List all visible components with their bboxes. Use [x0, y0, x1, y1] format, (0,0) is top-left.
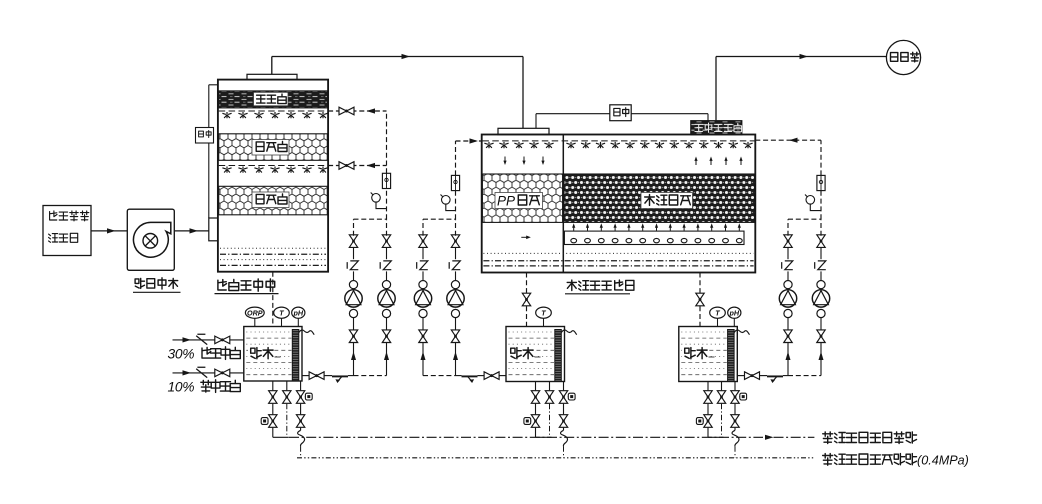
riser 2 to bio left spray: [455, 191, 457, 220]
svg-text:pH: pH: [293, 308, 304, 317]
tower inlet stub: [209, 218, 218, 241]
DP gauge box top: [610, 105, 631, 121]
dosing line NaClO: [173, 372, 244, 374]
corner to drain header: [536, 436, 552, 438]
gas pipe tower to bio unit: [271, 57, 273, 75]
strainer S1: [332, 375, 348, 377]
drain valve with funnel: [531, 415, 539, 428]
aeration arrows: [573, 226, 575, 231]
pump P4: [451, 309, 459, 317]
riser 1 to scrubber sprays: [386, 188, 388, 219]
pump column line 6: [820, 342, 822, 375]
scrubber tower shell: [218, 80, 328, 272]
svg-text:T: T: [279, 308, 284, 317]
pump column line 2: [386, 342, 388, 375]
pump column line 5: [787, 342, 789, 375]
valve below pump P4: [451, 330, 459, 343]
motorised fill valve: [296, 391, 304, 404]
valve: [545, 391, 553, 404]
valve: [296, 415, 304, 428]
valve on bio drain A: [522, 293, 530, 306]
drain valve with funnel: [704, 415, 712, 428]
underflow arrow left section: [521, 236, 527, 238]
strainer S2: [462, 375, 478, 377]
scrubber drain pipe to tank1: [272, 272, 274, 327]
pump P2: [382, 309, 390, 317]
demister band: [219, 91, 328, 108]
suction header pumps 3-4: [423, 375, 456, 377]
aeration pipe: [564, 231, 744, 244]
bio inlet cap: [498, 128, 549, 134]
check valve above pump P5: [782, 261, 793, 270]
tank T3: [679, 327, 738, 382]
valve: [559, 415, 567, 428]
water header label: [823, 454, 917, 466]
bio right up arrows: [695, 159, 697, 165]
discharge header pumps 5-6: [788, 218, 821, 220]
pump column line 1: [353, 342, 355, 375]
drain valve with funnel: [269, 415, 277, 428]
source box: low-concentration odour gas: [43, 206, 91, 256]
tank drain stub A: [272, 381, 274, 390]
dosing line NaOH: [173, 339, 244, 341]
waste drain header: [289, 436, 763, 438]
discharge valve pump P6: [817, 235, 825, 248]
corner to drain header: [273, 436, 289, 438]
discharge valve pump P1: [349, 235, 357, 248]
tank drain stub B: [549, 382, 551, 391]
svg-text:(0.4MPa): (0.4MPa): [917, 454, 969, 468]
suction header pumps 1-2: [354, 375, 387, 377]
pump P5: [784, 309, 792, 317]
svg-text:30%: 30%: [168, 347, 195, 362]
make-up water header: [297, 457, 814, 459]
motorised fill valve: [731, 391, 739, 404]
bio left down arrows: [504, 157, 506, 163]
riser 3 to bio right spray: [820, 191, 822, 220]
tank3 suction pipe: [737, 375, 744, 377]
bio unit divider: [562, 135, 564, 273]
tank fill stub C: [734, 382, 736, 391]
tower sump liquid lines: [220, 247, 326, 249]
check valve above pump P1: [347, 261, 358, 270]
pump P1: [349, 309, 357, 317]
pressure gauge G1: [372, 194, 381, 203]
PP packing band: [482, 174, 562, 222]
discharge header pumps 3-4: [423, 218, 456, 220]
spray branch upper: [328, 110, 386, 112]
flow meter F1: [382, 173, 390, 188]
motorised fill valve: [559, 391, 567, 404]
tank fill stub C: [300, 381, 302, 390]
duct fan to tower: [174, 230, 209, 232]
valve below pump P3: [419, 330, 427, 343]
fan volute symbol: [133, 222, 170, 257]
bio unit shell: [482, 135, 756, 273]
valve: [269, 391, 277, 404]
valve below pump P1: [349, 330, 357, 343]
bio media band: [564, 174, 755, 222]
exhaust stack circle: [886, 40, 920, 74]
discharge valve pump P5: [784, 235, 792, 248]
tank drain stub B: [286, 381, 288, 390]
DP gauge box left: [196, 128, 214, 144]
svg-text:pH: pH: [729, 308, 740, 317]
DP tap lines top: [535, 114, 537, 129]
bio drain pipe to tank3: [699, 273, 701, 293]
pipe crossover jump: [561, 430, 568, 446]
suction header pumps 5-6: [788, 375, 821, 377]
valve below pump P5: [784, 330, 792, 343]
discharge valve pump P2: [382, 235, 390, 248]
valve on bio drain B: [696, 293, 704, 306]
check valve above pump P3: [417, 261, 428, 270]
packing layer 2: [219, 186, 328, 215]
tower label: [218, 279, 275, 291]
strainer S3: [767, 375, 783, 377]
tank drain stub A: [707, 382, 709, 391]
discharge valve pump P3: [419, 235, 427, 248]
tank drain stub B: [721, 382, 723, 391]
check valve above pump P6: [815, 261, 826, 270]
spray header 2: [219, 165, 328, 167]
pipe crossover jump: [732, 430, 739, 446]
svg-text:10%: 10%: [168, 380, 195, 395]
flow meter F3: [817, 175, 825, 190]
bio sump liquid lines: [483, 252, 753, 254]
spray branch lower: [328, 165, 386, 167]
flow meter F2: [451, 175, 459, 190]
tank drain stub A: [535, 382, 537, 391]
pump P6: [817, 309, 825, 317]
corner to drain header: [708, 436, 724, 438]
drain header label: [823, 432, 917, 444]
valve: [531, 391, 539, 404]
bio drain pipe to tank2: [526, 273, 528, 293]
spray header 1: [219, 110, 328, 112]
DP tap line left: [209, 84, 218, 86]
tank2 suction pipe: [499, 375, 506, 377]
svg-text:PP: PP: [497, 193, 515, 208]
valve: [731, 415, 739, 428]
svg-text:T: T: [541, 308, 546, 317]
tank T2: [506, 327, 565, 382]
pipe crossover jump: [298, 430, 305, 446]
tank T1 (caustic): [244, 327, 302, 382]
pressure gauge G2: [442, 196, 451, 205]
duct source to fan: [91, 230, 127, 232]
valve: [704, 391, 712, 404]
packing layer 1: [219, 134, 328, 161]
valve below pump P2: [382, 330, 390, 343]
fan label: [135, 278, 178, 289]
pressure gauge G3: [806, 196, 815, 205]
discharge valve pump P4: [451, 235, 459, 248]
bio unit label: [567, 280, 634, 290]
pump column line 3: [422, 342, 424, 375]
outlet demister box: [691, 121, 742, 135]
discharge header pumps 1-2: [354, 218, 387, 220]
check valve above pump P2: [380, 261, 391, 270]
valve: [283, 391, 291, 404]
tank1 suction pipe: [302, 375, 309, 377]
svg-text:T: T: [715, 308, 720, 317]
svg-text:ORP: ORP: [247, 308, 263, 317]
centrifugal fan box: [127, 209, 174, 270]
pump P3: [419, 309, 427, 317]
valve below pump P6: [817, 330, 825, 343]
check valve above pump P4: [449, 261, 460, 270]
bio spray header: [482, 140, 754, 142]
pump column line 4: [455, 342, 457, 375]
exhaust pipe to stack: [715, 57, 717, 121]
tower top cap: [247, 74, 297, 79]
valve: [717, 391, 725, 404]
tank fill stub C: [563, 382, 565, 391]
